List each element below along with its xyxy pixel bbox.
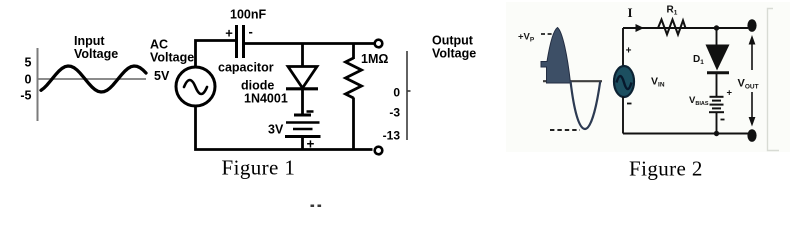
battery B1 3V plate 4: [285, 135, 321, 138]
battery B1 3V plate 3: [293, 128, 313, 131]
svg-text:Figure 1: Figure 1: [222, 156, 296, 180]
input voltage graph vertical axis: [37, 48, 39, 121]
input voltage graph horizontal axis (0 line): [38, 78, 147, 80]
diode D1 (filled): [706, 45, 730, 71]
svg-text:Voltage: Voltage: [150, 51, 194, 65]
battery minus mark: [307, 110, 314, 113]
output scale vertical line: [406, 51, 408, 140]
svg-text:Voltage: Voltage: [432, 47, 476, 61]
battery VBIAS plate 3: [710, 104, 724, 106]
junction node top: [714, 25, 719, 30]
wire diode to battery: [301, 89, 304, 115]
output scale tick at 0: [407, 90, 411, 92]
battery minus mark: [721, 119, 725, 121]
svg-text:Voltage: Voltage: [74, 47, 118, 61]
wire top node to resistor: [352, 44, 355, 60]
svg-text:5: 5: [25, 56, 32, 70]
bottom rail wire: [196, 107, 373, 150]
wire top node to diode: [301, 44, 304, 68]
svg-text:0: 0: [25, 73, 32, 87]
current arrow: [636, 24, 645, 32]
dashed peak level line: [541, 33, 554, 35]
resistor R 1Mohm zigzag: [346, 58, 362, 98]
diode D1 cathode bar: [707, 71, 729, 74]
svg-text:AC: AC: [150, 38, 168, 52]
output terminal bottom (open circle): [375, 147, 383, 155]
svg-text:+: +: [626, 46, 632, 57]
svg-text:100nF: 100nF: [230, 8, 266, 22]
svg-text:-: -: [249, 24, 253, 39]
wire resistor to bottom rail: [352, 98, 355, 151]
capacitor C1 right plate: [242, 25, 245, 58]
battery VBIAS plate 4: [712, 107, 721, 109]
output terminal top (filled): [747, 19, 756, 32]
svg-text:-3: -3: [389, 106, 400, 120]
svg-text:5V: 5V: [154, 69, 170, 83]
VOUT arrow up: [751, 44, 753, 70]
svg-text:0: 0: [393, 86, 400, 100]
AC source V1 circle: [176, 67, 215, 106]
waveform axis line: [543, 80, 602, 82]
svg-text:-5: -5: [20, 89, 31, 103]
source minus mark: [627, 103, 632, 105]
wire battery to bottom rail: [301, 137, 304, 151]
output terminal bottom (filled): [747, 129, 756, 142]
wire junction to diode D1: [716, 28, 718, 45]
junction node bottom: [714, 131, 719, 136]
svg-text:+: +: [225, 26, 233, 41]
dashed negative peak level line: [550, 129, 580, 131]
diode cathode bar: [286, 87, 318, 90]
svg-text:Output: Output: [432, 34, 474, 48]
cropped text marks bottom edge: [311, 205, 315, 208]
battery VBIAS plate 5: [709, 111, 724, 113]
output terminal top (open circle): [375, 40, 383, 48]
svg-text:I: I: [628, 5, 633, 20]
figure 2 right bracket frame: [768, 9, 780, 151]
svg-text:Input: Input: [74, 34, 105, 48]
bottom rail wire: [623, 133, 748, 135]
svg-text:-13: -13: [383, 129, 401, 143]
battery B1 3V plate 1: [294, 114, 311, 117]
battery VBIAS plate 2: [712, 100, 721, 102]
svg-text:3V: 3V: [268, 123, 284, 137]
negative half-cycle outline: [571, 81, 601, 129]
wire source bottom: [622, 97, 624, 134]
svg-text:diode: diode: [241, 79, 274, 93]
input sine waveform: [41, 66, 146, 92]
svg-text:1MΩ: 1MΩ: [361, 52, 388, 66]
capacitor C1 left plate: [235, 25, 238, 58]
source sine symbol: [617, 76, 632, 89]
figure 2 background panel: [506, 2, 790, 152]
svg-text:Figure 2: Figure 2: [629, 157, 703, 181]
diode D (1N4001) triangle: [288, 67, 317, 89]
svg-text:+: +: [727, 88, 733, 99]
VOUT arrow down: [751, 92, 753, 117]
AC source sine symbol: [184, 80, 207, 94]
wire AC source top to capacitor: [196, 41, 237, 68]
resistor R1 zigzag: [658, 20, 686, 35]
wire source top: [622, 28, 624, 67]
wire battery to bottom rail: [716, 112, 718, 134]
wire capacitor to output node: [244, 42, 375, 45]
top rail wire: [623, 27, 748, 29]
svg-text:1N4001: 1N4001: [244, 92, 288, 106]
wire diode to VBIAS battery: [716, 73, 718, 96]
filled positive half-cycle lobe: [541, 28, 571, 84]
battery VBIAS plate 1: [710, 96, 724, 98]
svg-text:capacitor: capacitor: [218, 61, 274, 75]
battery B1 3V plate 2: [286, 121, 320, 124]
source VIN ellipse: [614, 66, 634, 97]
